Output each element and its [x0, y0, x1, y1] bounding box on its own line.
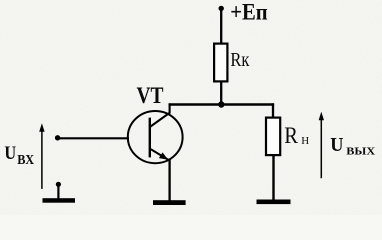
ground bar middle	[153, 200, 186, 205]
wire: Rk bottom to junction	[220, 82, 222, 105]
transistor collector lead	[150, 103, 170, 127]
resistor Rn	[266, 118, 280, 156]
node input dot	[55, 135, 60, 140]
node junction dot	[218, 101, 224, 107]
svg-text:Rк: Rк	[230, 49, 249, 71]
ground bar right	[257, 200, 291, 205]
svg-text:U: U	[330, 134, 343, 156]
wire: input to base	[58, 137, 129, 139]
emitter arrowhead	[159, 152, 168, 159]
arrow input up	[41, 129, 43, 189]
svg-text:U: U	[4, 143, 16, 164]
transistor base bar	[149, 118, 151, 158]
transistor VT body ellipse	[128, 111, 183, 163]
arrow output up	[320, 117, 322, 178]
ground bar left	[43, 198, 76, 203]
svg-text:R: R	[284, 123, 298, 148]
svg-text:ВЫХ: ВЫХ	[346, 146, 375, 158]
svg-text:+Еп: +Еп	[230, 0, 267, 25]
svg-text:VT: VT	[137, 83, 164, 108]
wire: emitter down to ground	[168, 160, 170, 201]
wire: collector rail horizontal	[169, 103, 275, 105]
transistor emitter lead	[150, 149, 170, 161]
resistor Rk	[214, 44, 227, 82]
node dot above left ground	[56, 182, 61, 187]
wire: stub to left ground	[57, 185, 59, 199]
svg-text:ВХ: ВХ	[17, 153, 34, 168]
wire: corner down to Rn	[272, 103, 274, 117]
svg-text:Н: Н	[301, 135, 309, 147]
wire: +Ep terminal to Rk top	[220, 8, 222, 43]
node +Ep terminal dot	[219, 6, 224, 11]
wire: Rn bottom to ground	[272, 155, 274, 200]
